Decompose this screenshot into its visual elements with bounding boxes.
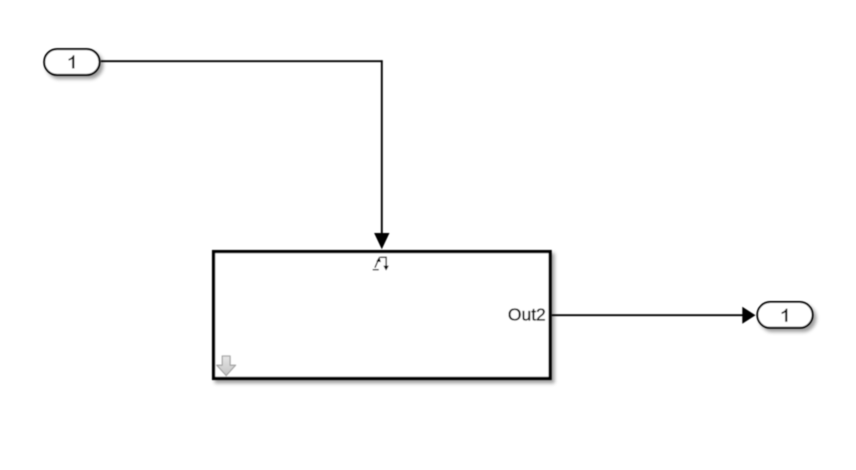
outport Out1 label "1": [782, 309, 788, 322]
wire W2 horizontal segment: [552, 314, 744, 316]
wire W2 arrowhead into outport: [742, 307, 755, 324]
subsystem block: [214, 252, 550, 379]
subsystem gray down-arrow badge: [217, 356, 236, 376]
inport In1 block: [44, 49, 99, 75]
outport Out1 block: [757, 302, 812, 328]
wire W1 horizontal segment: [101, 60, 383, 62]
wire W1 vertical segment: [381, 60, 383, 237]
trigger port icon: [373, 257, 386, 269]
inport In1 label "1": [69, 55, 75, 68]
wire W1 arrowhead into subsystem: [374, 233, 389, 249]
svg-text:Out2: Out2: [508, 304, 546, 324]
